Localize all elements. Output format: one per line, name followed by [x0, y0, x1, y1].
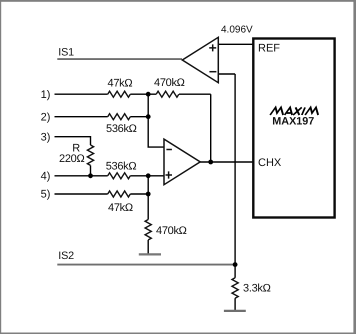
svg-text:470kΩ: 470kΩ — [154, 77, 185, 89]
svg-text:2): 2) — [41, 111, 51, 123]
svg-text:470kΩ: 470kΩ — [156, 225, 187, 237]
svg-text:IS1: IS1 — [58, 46, 74, 58]
svg-text:220Ω: 220Ω — [59, 153, 84, 165]
svg-text:3): 3) — [41, 131, 51, 143]
svg-text:IS2: IS2 — [58, 250, 74, 262]
svg-text:4.096V: 4.096V — [221, 25, 253, 36]
svg-text:3.3kΩ: 3.3kΩ — [243, 283, 271, 295]
svg-text:536kΩ: 536kΩ — [106, 123, 137, 135]
svg-text:47kΩ: 47kΩ — [108, 202, 133, 214]
svg-text:1): 1) — [41, 89, 51, 101]
svg-text:MAX197: MAX197 — [272, 115, 314, 127]
svg-text:REF: REF — [258, 43, 280, 55]
svg-text:5): 5) — [41, 189, 51, 201]
svg-text:536kΩ: 536kΩ — [106, 160, 137, 172]
svg-text:47kΩ: 47kΩ — [108, 77, 133, 89]
svg-text:4): 4) — [41, 170, 51, 182]
svg-text:CHX: CHX — [258, 157, 282, 169]
